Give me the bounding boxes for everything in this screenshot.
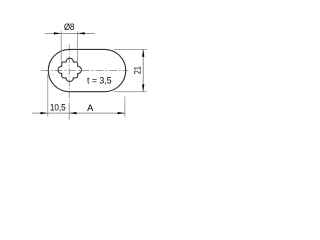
dim 21 extension line top: [114, 48, 147, 50]
bottom dimension line: [32, 112, 125, 114]
bottom dim extension line left (plate edge): [47, 74, 49, 117]
dim 21 bottom arrow: [142, 84, 144, 91]
horizontal centerline: [41, 69, 129, 71]
dim 21 top arrow: [142, 49, 144, 56]
svg-text:t = 3,5: t = 3,5: [87, 75, 112, 86]
svg-text:10,5: 10,5: [50, 102, 66, 113]
dim Ø8 left arrow: [54, 32, 61, 34]
svg-text:21: 21: [132, 66, 143, 74]
dim Ø8 dimension line: [45, 32, 95, 34]
svg-text:Ø8: Ø8: [64, 22, 74, 32]
vertical centerline: [68, 44, 70, 119]
plate outline (stadium): [48, 49, 125, 91]
dim Ø8 right arrow: [78, 32, 85, 34]
dim 21 dimension line: [142, 49, 144, 91]
dim A right arrow (pointing right): [118, 112, 125, 114]
dim Ø8 extension line left: [60, 31, 62, 63]
dim 21 extension line bottom: [114, 91, 147, 93]
svg-text:A: A: [87, 102, 94, 113]
bottom dim extension line right (plate edge): [124, 97, 126, 117]
centre extension segment (solid, under bottom dims): [68, 103, 70, 120]
dim Ø8 extension line right: [77, 31, 79, 63]
quatrefoil hole: [58, 58, 81, 81]
shared arrow at centerline (pointing left): [69, 112, 76, 114]
dim 10,5 left arrow (outside, pointing right): [41, 112, 48, 114]
